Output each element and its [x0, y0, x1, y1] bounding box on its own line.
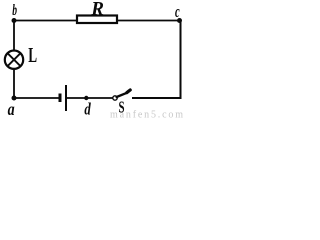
lamp L [5, 51, 23, 69]
wire right side c down to corner [180, 21, 182, 99]
node c [177, 18, 182, 23]
svg-text:b: b [12, 0, 17, 18]
wire b to resistor [14, 20, 77, 22]
svg-text:S: S [119, 98, 125, 117]
wire resistor to c [118, 20, 181, 22]
node a [12, 96, 17, 101]
switch S lever [117, 90, 131, 97]
wire lamp down to a [13, 69, 15, 98]
svg-text:L: L [28, 43, 37, 67]
node d [84, 96, 88, 100]
resistor R [77, 16, 117, 24]
wire switch to corner [132, 97, 182, 99]
svg-text:R: R [90, 0, 104, 20]
svg-text:d: d [84, 101, 91, 119]
node b [12, 18, 17, 23]
wire left side b down to lamp [13, 21, 15, 52]
wire a to battery [14, 97, 59, 99]
svg-text:c: c [175, 3, 180, 22]
switch S pivot [113, 96, 117, 100]
wire battery to d [67, 97, 113, 99]
battery positive plate (long thin) [65, 85, 67, 111]
battery negative plate (short thick) [59, 94, 62, 103]
svg-text:a: a [8, 100, 15, 119]
